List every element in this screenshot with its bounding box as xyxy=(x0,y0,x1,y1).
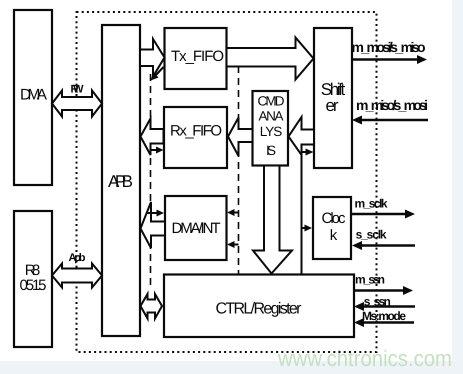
svg-text:m_miso/s_mosi: m_miso/s_mosi xyxy=(356,97,428,113)
svg-text:s_sclk: s_sclk xyxy=(356,228,387,242)
svg-text:www.chtronics.com: www.chtronics.com xyxy=(277,346,452,371)
svg-text:IS: IS xyxy=(266,143,276,158)
svg-text:er: er xyxy=(326,96,339,115)
svg-text:Ms:mode: Ms:mode xyxy=(362,309,406,323)
svg-text:LYS: LYS xyxy=(260,124,283,139)
svg-text:DMA: DMA xyxy=(20,87,48,104)
svg-text:Cloc: Cloc xyxy=(322,210,347,227)
svg-text:m_mosi/s_miso: m_mosi/s_miso xyxy=(352,39,426,55)
svg-text:APB: APB xyxy=(108,172,133,191)
svg-text:RW: RW xyxy=(71,84,85,96)
svg-text:Rx_FIFO: Rx_FIFO xyxy=(170,123,222,140)
svg-text:s_ssn: s_ssn xyxy=(364,295,391,309)
svg-text:CTRL/Register: CTRL/Register xyxy=(216,301,303,318)
svg-text:Apb: Apb xyxy=(69,252,86,264)
svg-text:Tx_FIFO: Tx_FIFO xyxy=(171,48,224,65)
svg-text:CMD: CMD xyxy=(258,94,285,109)
svg-text:m_sclk: m_sclk xyxy=(355,197,388,211)
svg-text:0515: 0515 xyxy=(20,277,47,294)
svg-text:m_ssn: m_ssn xyxy=(355,273,385,287)
svg-text:ANA: ANA xyxy=(259,109,284,124)
svg-text:k: k xyxy=(330,227,338,244)
svg-text:DMA/INT: DMA/INT xyxy=(172,220,221,237)
